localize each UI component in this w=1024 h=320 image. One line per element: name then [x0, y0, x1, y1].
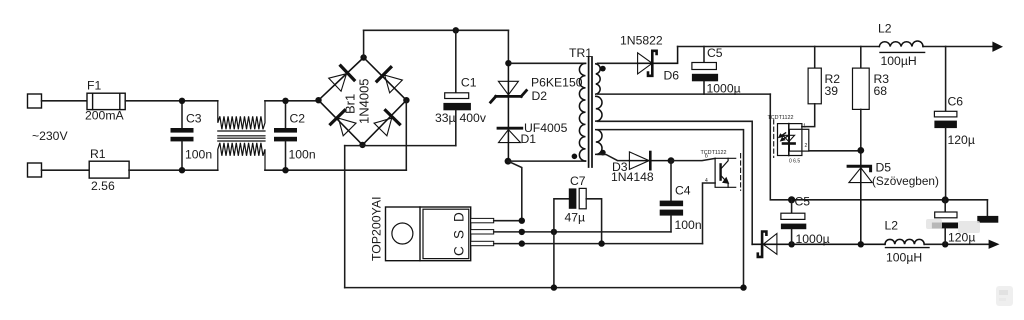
- wire drain slant: [508, 161, 522, 221]
- primary polarity dot: [572, 154, 578, 160]
- svg-text:C5: C5: [795, 195, 811, 209]
- 0V terminal stub: [986, 200, 988, 216]
- svg-text:D6: D6: [664, 69, 680, 83]
- svg-text:400v: 400v: [460, 111, 487, 125]
- node dot 0V / C6 bottom: [942, 196, 949, 203]
- bias winding polarity dot: [600, 150, 606, 156]
- svg-text:C6: C6: [948, 95, 964, 109]
- node dot clamp top: [505, 60, 511, 66]
- svg-text:47µ: 47µ: [565, 211, 586, 225]
- node dot C3 top: [179, 98, 185, 104]
- transil D2 P6KE150: [491, 63, 527, 127]
- svg-text:1000µ: 1000µ: [707, 82, 741, 96]
- node dot pin D: [519, 218, 525, 224]
- wire F1 to choke: [125, 100, 218, 102]
- node dot pin S: [519, 229, 525, 235]
- -V rail after L2: [924, 243, 988, 245]
- svg-text:D2: D2: [532, 89, 548, 103]
- wire bias return C: [598, 130, 744, 288]
- wire R1 to choke: [129, 169, 218, 171]
- svg-text:C2: C2: [290, 112, 306, 126]
- bridge diode top-left: [328, 66, 354, 92]
- svg-text:C7: C7: [570, 174, 586, 188]
- output +V rail: [678, 46, 993, 48]
- wire choke to C2 top: [265, 100, 320, 102]
- svg-text:D1: D1: [521, 132, 537, 146]
- wire secondary center tap A: [598, 93, 771, 95]
- wire AC bottom to right vertex: [405, 100, 407, 170]
- diode D3 1N4148: [629, 152, 671, 170]
- wire DC+ rail to clamp corner: [364, 29, 509, 31]
- svg-text:D: D: [452, 212, 467, 222]
- svg-text:68: 68: [874, 84, 888, 98]
- optocoupler U2 phototransistor: [721, 158, 729, 187]
- optocoupler U2 LED box: [774, 120, 809, 158]
- wire secondary top to D6: [598, 62, 638, 64]
- svg-text:33µ: 33µ: [435, 111, 456, 125]
- wire top terminal to F1: [42, 100, 88, 102]
- pin lead S: [471, 230, 494, 234]
- wire bridge minus horizontal: [345, 145, 456, 147]
- wire opto emitter down to C row: [703, 183, 716, 244]
- wire S junction down to ground rail: [553, 232, 555, 288]
- wire bias winding to D3: [598, 155, 630, 161]
- TOP200YAI U1 package: [386, 207, 471, 261]
- common-mode choke bottom winding: [218, 141, 265, 170]
- svg-text:F1: F1: [87, 79, 101, 93]
- node dot bridge bottom vertex: [359, 142, 365, 148]
- resistor R1: [89, 161, 129, 178]
- transformer bias winding W3: [596, 130, 602, 155]
- capacitor C5 (lower 1000µ): [781, 200, 806, 245]
- svg-text:C3: C3: [186, 112, 202, 126]
- bridge diode bottom-right: [373, 110, 399, 136]
- capacitor C5 (upper 1000µ): [692, 47, 718, 95]
- common-mode choke top winding: [218, 101, 265, 131]
- node dot C1 top on rail: [453, 27, 459, 33]
- bridge Br1 diamond outline: [319, 58, 407, 145]
- capacitor C2: [274, 101, 297, 170]
- node dot C7 right on C row: [598, 240, 604, 246]
- fuse F1: [87, 93, 125, 109]
- node dot bridge left vertex: [315, 97, 321, 103]
- input terminal top: [28, 94, 42, 108]
- svg-text:L2: L2: [885, 219, 899, 233]
- capacitor C4: [660, 161, 683, 232]
- svg-text:L2: L2: [878, 22, 892, 36]
- svg-text:1N4148: 1N4148: [611, 170, 654, 184]
- svg-text:~230V: ~230V: [32, 129, 68, 143]
- capacitor C7: [554, 188, 602, 243]
- pin lead D: [471, 218, 494, 222]
- wire D3 node to optocoupler base side: [671, 158, 715, 160]
- svg-text:120µ: 120µ: [948, 133, 975, 147]
- node dot bridge top vertex: [360, 54, 366, 60]
- svg-text:100n: 100n: [675, 218, 702, 232]
- svg-text:(Szövegben): (Szövegben): [872, 174, 939, 188]
- choke core lines: [218, 136, 265, 139]
- transformer core lines: [589, 57, 592, 167]
- svg-text:1000µ: 1000µ: [796, 232, 830, 246]
- schottky diode D6: [638, 47, 678, 76]
- svg-text:2.56: 2.56: [91, 179, 115, 193]
- svg-text:1N5822: 1N5822: [620, 34, 663, 48]
- svg-text:TCDT1122: TCDT1122: [768, 115, 794, 121]
- node dot C5 lower on -V rail: [788, 241, 794, 247]
- diode D1 UF4005: [498, 128, 522, 161]
- 0V terminal bar: [977, 216, 998, 223]
- svg-text:R1: R1: [90, 147, 106, 161]
- inductor L2 (lower): [885, 239, 929, 247]
- watermark blobs: [926, 219, 1013, 306]
- svg-text:Br1: Br1: [343, 94, 358, 114]
- wire rail corner down to clamp node: [507, 30, 509, 63]
- schottky diode D4 (lower output): [752, 232, 885, 257]
- node dot LED cathode / R3 / D5: [857, 147, 864, 154]
- node dot C5 lower top on 0V: [788, 196, 795, 203]
- wire primary ground rail: [345, 287, 744, 289]
- bridge diode top-right: [377, 67, 403, 93]
- optocoupler U2 LED: [778, 124, 794, 156]
- inductor L2 (top): [879, 41, 924, 52]
- node dot pin C: [519, 240, 525, 246]
- wire choke to C2 bottom: [265, 169, 406, 171]
- svg-text:C1: C1: [461, 76, 477, 90]
- node dot lower 120µ on -V rail: [942, 241, 948, 247]
- svg-text:100n: 100n: [289, 148, 316, 162]
- wire pin C row: [494, 243, 703, 245]
- node dot clamp bottom / drain node: [505, 158, 512, 165]
- node dot D3 cathode: [668, 157, 675, 164]
- capacitor C3: [171, 101, 194, 170]
- node dot C3 bottom: [179, 167, 185, 173]
- output arrow -V: [989, 240, 1000, 249]
- zener D5: [848, 166, 872, 244]
- svg-text:100n: 100n: [185, 148, 212, 162]
- resistor R3: [853, 47, 870, 167]
- secondary W1 polarity dot: [600, 66, 606, 72]
- svg-text:200mA: 200mA: [85, 109, 124, 123]
- node dot C2 bottom: [282, 167, 288, 173]
- wire drain node to primary bottom: [508, 160, 586, 162]
- svg-text:C4: C4: [675, 184, 691, 198]
- svg-text:S: S: [452, 230, 467, 239]
- svg-text:100µH: 100µH: [881, 54, 917, 68]
- pin lead C: [471, 241, 494, 245]
- wire bridge minus vertical down: [344, 146, 346, 288]
- optocoupler U2 transistor box: [715, 154, 741, 191]
- node dot S ground junction: [551, 229, 557, 235]
- resistor R2: [802, 47, 821, 127]
- node dot S on ground rail: [551, 284, 557, 290]
- node dot bias return on ground rail: [740, 284, 746, 290]
- output arrow +V: [992, 42, 1003, 52]
- svg-text:1: 1: [803, 123, 806, 129]
- svg-text:1N4005: 1N4005: [357, 78, 372, 124]
- wire bridge top vertex to DC+ rail: [363, 30, 365, 57]
- svg-text:C5: C5: [707, 46, 723, 60]
- svg-text:b: b: [705, 154, 708, 160]
- transformer TR1 primary winding: [579, 63, 585, 161]
- wire pin S row: [494, 231, 671, 233]
- capacitor C1: [443, 30, 471, 145]
- wire clamp node to primary top: [508, 62, 585, 64]
- svg-text:0 6.5: 0 6.5: [789, 159, 800, 165]
- svg-text:P6KE150: P6KE150: [531, 76, 583, 90]
- svg-text:D5: D5: [876, 161, 892, 175]
- svg-text:39: 39: [825, 84, 839, 98]
- node dot bridge right vertex: [403, 97, 409, 103]
- svg-text:TOP200YAI: TOP200YAI: [370, 197, 384, 261]
- capacitor C8 (lower 120µ): [932, 200, 958, 244]
- svg-text:2: 2: [805, 143, 808, 149]
- transformer secondary winding W1: [596, 64, 600, 94]
- wire bottom terminal to R1: [42, 169, 91, 171]
- wire pin D to drain node: [494, 220, 522, 222]
- transformer secondary winding W2: [596, 96, 602, 121]
- node dot D5 anode on -V rail: [858, 241, 864, 247]
- node dot C2 top: [282, 98, 288, 104]
- capacitor C6: [934, 47, 957, 200]
- wire LED cathode to D5 node: [809, 150, 861, 152]
- wire secondary bottom B: [598, 121, 753, 244]
- bridge diode bottom-left: [331, 110, 357, 136]
- input terminal bottom: [28, 163, 42, 177]
- wire 0V line A corner down: [770, 94, 987, 200]
- svg-text:C: C: [452, 246, 467, 256]
- svg-text:100µH: 100µH: [886, 251, 922, 265]
